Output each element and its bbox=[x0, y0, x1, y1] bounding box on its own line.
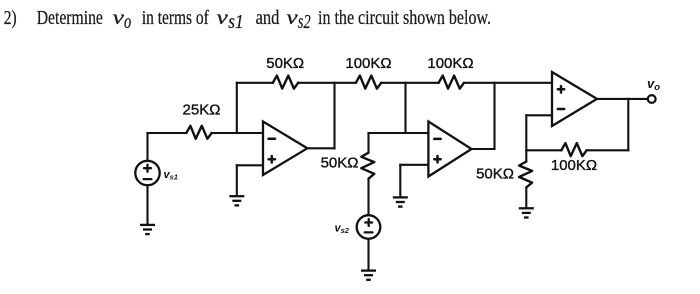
wire node A vertical up bbox=[236, 83, 238, 133]
wire Vs1 top to main bbox=[146, 133, 148, 161]
svg-text:in the circuit shown below.: in the circuit shown below. bbox=[318, 7, 491, 29]
svg-text:s2: s2 bbox=[298, 11, 311, 33]
svg-text:o: o bbox=[124, 11, 131, 33]
op-amp U2 bbox=[428, 122, 471, 177]
U1 inverting input sign bbox=[269, 138, 275, 141]
source Vs2 bbox=[357, 215, 381, 239]
wire node B horizontal to U2 minus bbox=[369, 132, 429, 134]
wire U2 noninverting input down to ground bbox=[399, 165, 401, 197]
wire 50K mid top lead bbox=[367, 133, 369, 153]
ground (U2 plus) bbox=[393, 197, 408, 206]
op-amp U1 bbox=[263, 122, 307, 176]
wire 100K second right to U3 noninverting input bbox=[465, 82, 553, 84]
wire U2 output horizontal bbox=[472, 148, 495, 150]
wire U2 output vertical up to bus bbox=[493, 83, 495, 149]
U2 noninverting input sign bbox=[434, 158, 440, 161]
U3 noninverting input sign bbox=[558, 88, 564, 91]
svg-text:100KΩ: 100KΩ bbox=[551, 157, 597, 174]
U2 inverting input sign bbox=[434, 138, 440, 141]
svg-text:100KΩ: 100KΩ bbox=[345, 55, 391, 72]
title text bbox=[4, 7, 491, 33]
wire 100K first right to 100K second left (node B segment) bbox=[382, 82, 439, 84]
svg-text:v: v bbox=[217, 7, 229, 29]
source Vs1 bbox=[135, 161, 159, 185]
resistor 100K first bbox=[356, 76, 381, 89]
svg-text:50KΩ: 50KΩ bbox=[476, 165, 514, 182]
wire U1 noninverting input horizontal bbox=[237, 164, 263, 166]
wire 50K mid bottom to Vs2 bbox=[367, 179, 369, 216]
wire Vs1 node to 25K left lead bbox=[148, 132, 187, 134]
wire node A up to 50K feedback left bbox=[237, 82, 273, 84]
svg-text:50KΩ: 50KΩ bbox=[266, 55, 304, 72]
wire U1 output vertical up to node C bbox=[333, 83, 335, 149]
op-amp U3 bbox=[552, 72, 597, 126]
Vs1 minus sign bbox=[144, 178, 152, 180]
wire U1 output horizontal bbox=[307, 147, 334, 149]
wire U1 noninverting input down to ground bbox=[236, 165, 238, 195]
U1 noninverting input sign bbox=[269, 158, 275, 161]
wire 100K feedback right to output node bbox=[587, 149, 629, 151]
resistor 50K mid vertical bbox=[361, 153, 374, 179]
wire 50K right bottom to ground bbox=[525, 188, 527, 208]
wire U3 minus branch vertical bbox=[525, 115, 527, 161]
resistor 50K top bbox=[273, 76, 298, 89]
wire output node down bbox=[627, 99, 629, 150]
wire U2 noninverting input horizontal bbox=[400, 164, 428, 166]
svg-text:100KΩ: 100KΩ bbox=[427, 55, 473, 72]
wire 50K right to 100K first left (node C segment) bbox=[298, 82, 356, 84]
svg-text:s1: s1 bbox=[228, 11, 243, 33]
ground (Vs1) bbox=[140, 225, 155, 234]
svg-text:Determine: Determine bbox=[37, 7, 103, 29]
wire Vs1 bottom to ground bbox=[146, 186, 148, 225]
svg-text:in terms of: in terms of bbox=[142, 7, 209, 29]
ground (U1 plus) bbox=[229, 196, 244, 205]
resistor 25K bbox=[186, 126, 211, 139]
Vs1 plus sign bbox=[144, 167, 151, 169]
svg-text:vs2: vs2 bbox=[335, 223, 350, 236]
node vo output terminal bbox=[648, 95, 656, 103]
svg-text:50KΩ: 50KΩ bbox=[321, 155, 359, 172]
wire 25K right lead to U1 inverting input bbox=[212, 132, 264, 134]
Vs2 plus sign bbox=[365, 221, 372, 223]
wire Vs2 bottom to ground bbox=[367, 239, 369, 270]
wire node B down bbox=[404, 83, 406, 133]
resistor 100K second bbox=[439, 76, 464, 89]
svg-text:vs1: vs1 bbox=[164, 169, 178, 182]
svg-text:25KΩ: 25KΩ bbox=[183, 102, 221, 119]
U3 inverting input sign bbox=[558, 108, 564, 111]
Vs2 minus sign bbox=[365, 231, 373, 233]
svg-text:2): 2) bbox=[4, 7, 17, 29]
ground (Vs2) bbox=[361, 271, 376, 280]
svg-text:and: and bbox=[256, 7, 280, 29]
resistor 100K feedback U3 bbox=[561, 143, 586, 156]
ground (50K right) bbox=[519, 208, 534, 217]
wire U3 output bbox=[597, 98, 648, 100]
wire feedback node to 100K feedback left bbox=[526, 149, 561, 151]
svg-text:vo: vo bbox=[647, 76, 660, 93]
wire U3 minus horizontal bbox=[526, 114, 552, 116]
resistor 50K right vertical bbox=[519, 162, 532, 188]
